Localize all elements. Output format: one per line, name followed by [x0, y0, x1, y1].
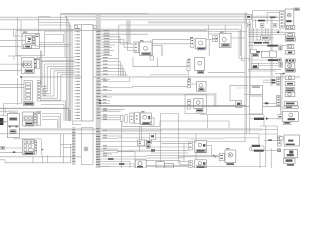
M1 wire right	[152, 44, 162, 46]
RC circle junction left	[249, 148, 252, 151]
RM box P2	[251, 63, 258, 68]
bus left x17.3	[16, 17, 18, 76]
RC box P small	[283, 121, 291, 124]
K1 top label	[23, 31, 27, 34]
RC box A 2circ	[285, 26, 295, 30]
wire mid dark y106.7	[100, 106, 281, 108]
outline inner y134 stub	[260, 133, 277, 135]
RC conn strip y136	[278, 136, 282, 146]
N pin strip	[187, 80, 190, 88]
RC box H bar	[285, 69, 295, 72]
wire y139 above fusebox	[14, 138, 42, 140]
BC wire y166.5 stub	[101, 166, 110, 168]
RM diamond mark	[277, 31, 279, 33]
RC box K bars	[285, 88, 295, 92]
wire x70.8 bottom drop	[70, 145, 72, 163]
RC box Q big	[284, 135, 300, 146]
wire x65.5 64 segment	[63, 111, 65, 121]
bus left x17.3 lower	[16, 78, 18, 105]
N2 group box	[185, 95, 206, 114]
wire y42.5	[39, 42, 63, 44]
module R label	[197, 47, 205, 50]
module U1 body	[195, 140, 207, 152]
bus left x5	[4, 108, 6, 113]
wire y159.8	[0, 159, 5, 161]
RM conn strip y45	[279, 45, 283, 50]
harness band top C	[148, 21, 247, 23]
K1 inner transistor box	[25, 35, 32, 43]
module R top label	[190, 37, 193, 38]
wire y72.7 right	[208, 72, 245, 74]
module R body	[195, 39, 206, 49]
RM resistor wire y45.6	[248, 45, 267, 47]
M3 top label	[220, 31, 224, 34]
M2-N link	[187, 71, 189, 81]
wire lower y141.6	[96, 141, 246, 143]
wire y121	[160, 120, 229, 122]
B1 top labels	[10, 111, 14, 113]
RM wire y32.2	[248, 31, 285, 33]
ECU right fan wires upper	[101, 31, 247, 33]
wire top y17.2	[0, 16, 66, 18]
box outline x160-178	[161, 113, 179, 115]
ECU left pin strip	[77, 27, 80, 30]
wire y87.4	[101, 86, 133, 88]
M2 wires left	[150, 66, 187, 68]
B1 gray label	[9, 117, 17, 120]
wire y111.2	[101, 110, 121, 112]
RC box G circ	[285, 63, 295, 69]
F1 label box	[24, 102, 35, 105]
module R wire left	[161, 45, 163, 56]
RC vertical x271.2	[270, 148, 272, 168]
bus right x245	[244, 13, 246, 142]
bus center x63.5	[63, 35, 65, 43]
vertical harness band x128	[126, 20, 130, 44]
RM wire y36.7	[248, 36, 261, 38]
module R drop	[208, 39, 210, 56]
motor top label	[226, 148, 230, 149]
drop x118.8	[118, 25, 120, 58]
wire y30.6 / K1 enclosure top	[16, 30, 207, 32]
fusebox label box	[24, 152, 34, 155]
BC bottom right box	[135, 160, 146, 168]
wires into module R	[153, 38, 191, 40]
wire lower y137.9	[118, 137, 259, 139]
N4 small box	[236, 101, 242, 108]
K1 wire left y36	[13, 35, 25, 37]
BC wire y146.5	[101, 146, 146, 148]
TR conn boxes bottom	[248, 23, 251, 27]
U2 wires left	[180, 161, 189, 163]
BR vertical x196	[195, 134, 197, 144]
bus left x21	[20, 20, 22, 34]
wire y156.8	[0, 156, 81, 158]
ECU lower connector body	[80, 128, 82, 165]
bus center x70.8	[70, 25, 72, 121]
U1 wires left	[162, 142, 189, 144]
K1 label box	[24, 45, 32, 48]
ECU circle label lower	[84, 147, 88, 151]
wire y81.5	[101, 81, 130, 83]
RM resistor wire y42.7	[248, 42, 254, 44]
wire lower y133.8	[0, 133, 259, 135]
fusebox outline	[23, 140, 35, 155]
box P3	[250, 86, 263, 95]
K1 right narrow box	[35, 35, 39, 46]
knot verticals	[183, 158, 185, 162]
module B2 outline	[23, 112, 34, 126]
N2 body	[194, 99, 203, 109]
M1 top label	[140, 40, 144, 41]
RM wire y40	[255, 39, 261, 41]
B3 label box	[10, 130, 16, 134]
corner x239	[238, 29, 240, 58]
TR verticals	[252, 11, 254, 28]
N2 label box	[196, 109, 203, 112]
harness band top B	[66, 16, 278, 18]
P3 inner	[252, 87, 260, 88]
ECU notch between connectors	[73, 120, 82, 122]
M1 body	[139, 42, 152, 55]
ECU right pin strip lower	[96, 127, 100, 130]
RC wire y150.4	[251, 149, 254, 151]
N symbol	[199, 84, 203, 88]
RC box I circ	[285, 76, 294, 80]
wire x264 drop	[263, 115, 265, 126]
R1 connector	[278, 115, 283, 119]
wire stub y103.5	[101, 103, 110, 105]
Q thin box	[125, 115, 128, 123]
wire top y29.2	[0, 28, 239, 30]
N label box	[199, 88, 204, 91]
TR pin strip	[280, 12, 285, 29]
wire y119.5 stair	[42, 119, 58, 121]
TR wire y10.6	[253, 10, 286, 12]
RM verticals left	[249, 28, 251, 86]
K3 pin strip right	[34, 58, 36, 68]
BR motor box	[225, 150, 236, 163]
wire y109.3	[101, 108, 125, 110]
N link	[191, 83, 197, 85]
dashed wire y88	[237, 87, 248, 89]
bus center x69.4	[68, 22, 70, 121]
F1 wires left	[0, 84, 24, 86]
RC vertical x260 low	[259, 150, 261, 168]
wire y31 local	[45, 30, 72, 32]
fusebox cells	[24, 141, 27, 143]
bus center x60.7	[60, 13, 62, 31]
wire y101 exit	[41, 100, 66, 102]
resistor R1 wire	[254, 118, 264, 120]
verticals x40-42 left	[39, 51, 41, 85]
RM wires y69-71	[248, 68, 281, 70]
bus center x65	[64, 31, 66, 58]
BC top box pins	[138, 140, 145, 146]
M1 symbol	[144, 46, 148, 50]
wire y34.5	[45, 34, 64, 36]
bus center x66.6	[66, 17, 68, 121]
fusebox left wire	[5, 147, 23, 149]
outline box bottom edge	[97, 166, 266, 168]
ECU right fan wires mid	[101, 57, 119, 59]
wire top y22.4	[39, 21, 70, 23]
BC wire y154	[101, 153, 112, 155]
K1 enclosure	[15, 31, 17, 56]
wire top y19.8	[0, 19, 67, 21]
corner x241.5	[241, 25, 243, 61]
RC junction circ y150	[278, 149, 281, 152]
RM wire y30	[248, 29, 281, 31]
U1 top label	[191, 138, 194, 139]
ECU left wire y57.5	[41, 57, 75, 59]
N top label	[188, 79, 191, 80]
BC wire y138.5	[101, 138, 118, 140]
junction dot band B2	[67, 19, 69, 21]
M3 symbol	[222, 38, 226, 42]
wire stub y90.5	[101, 90, 112, 92]
module R top wire	[208, 25, 210, 39]
bus left x21 mid	[21, 78, 23, 104]
wire y129.4 right	[262, 128, 277, 130]
Q right pin box	[151, 118, 154, 125]
BC verticals x139-141	[139, 126, 141, 140]
M2 pin strip	[187, 61, 190, 71]
RM box C1	[261, 36, 270, 40]
N2 pin strip	[188, 100, 191, 110]
RC box C bars	[285, 37, 295, 41]
B2 pin strip	[34, 112, 37, 125]
ECU upper connector body	[81, 25, 93, 121]
RM resistor wire y60	[248, 59, 268, 61]
RM small white box	[251, 49, 257, 53]
module U1 pin strip	[189, 142, 193, 151]
fuse stack F1	[24, 81, 33, 102]
M2 body	[195, 58, 205, 71]
knot wires	[155, 149, 189, 151]
U1 wire right	[207, 145, 212, 147]
RC tall box top	[285, 9, 294, 26]
BC wire y156.5	[101, 156, 146, 158]
wire y119.8	[101, 119, 121, 121]
bus center x72.1	[71, 29, 73, 121]
RML conn strip y77.5	[277, 78, 281, 86]
ECU top pin box right	[93, 25, 96, 28]
bus left x13.3	[12, 29, 14, 36]
wire x207.3 drop	[206, 115, 208, 129]
BC wire y161.5	[101, 161, 130, 163]
bus right x249.5	[249, 15, 251, 134]
M2 label box	[198, 71, 204, 74]
RM wires y63-65	[259, 63, 279, 65]
ECU right pin strip upper	[97, 30, 101, 33]
bottom mid boxes	[156, 162, 164, 168]
M3 connector pair	[213, 36, 218, 42]
wire y162.8	[5, 162, 71, 164]
wire top y25 right	[119, 24, 242, 26]
wire x68.7 drop	[68, 108, 70, 121]
Q box mid	[130, 113, 134, 123]
BC wire y131	[101, 130, 162, 132]
Q big box label	[142, 122, 150, 124]
BR arrow wires	[146, 154, 219, 156]
RM conn box y58	[278, 58, 281, 62]
bus left x20.7 stub	[20, 76, 22, 78]
B2 circle cells	[24, 116, 33, 121]
K3 wire left y56	[8, 55, 22, 57]
RM wire y34.5	[248, 34, 285, 36]
RC box F bars	[285, 59, 295, 62]
B2 label box	[25, 122, 32, 125]
vertical harness band x271	[270, 17, 272, 86]
harness band mid y94	[101, 93, 217, 95]
vertical x184	[183, 143, 185, 158]
BR motor pins	[219, 153, 224, 161]
K3 inner relay box	[24, 61, 32, 68]
module B1 outline	[7, 113, 19, 125]
Q big box symbol	[143, 115, 147, 119]
wire y108.3 left	[0, 107, 69, 109]
band y138 right	[188, 137, 226, 139]
Q top label	[141, 111, 145, 112]
harness band lower y129	[19, 128, 262, 130]
staircase wire labels	[43, 85, 47, 88]
module R pin strip	[191, 39, 194, 48]
BC wire y149	[101, 148, 118, 150]
RML arrow wire y82.6	[263, 82, 277, 84]
Q big box	[141, 113, 152, 125]
wire y114.6	[200, 114, 264, 116]
N4 wire	[229, 85, 231, 100]
RC box R big	[284, 149, 297, 157]
RM top boxes y51	[261, 51, 269, 57]
RC box D circ	[287, 45, 294, 49]
wire y116.5 stair	[42, 116, 59, 118]
left edge wires	[0, 115, 7, 117]
RML verticals x280-282	[280, 73, 282, 114]
vertical harness band x215	[214, 93, 217, 107]
wire nest to M1	[119, 37, 121, 44]
RM conn pair y62.5	[279, 63, 283, 68]
harness band mid y76	[21, 76, 300, 78]
wire top y25 left	[39, 24, 71, 26]
wire mid dark y105.6	[100, 105, 246, 107]
bus center x68	[67, 20, 69, 121]
BC label frame	[104, 151, 118, 153]
RC box B ellipse	[286, 33, 295, 37]
RC box L circ	[285, 92, 295, 96]
TR wire y17.5	[251, 17, 279, 19]
K3 wire left y70.3	[0, 69, 22, 71]
ECU top pin box left	[75, 25, 78, 28]
left edge dark blob	[0, 118, 3, 125]
module U2 pin strip	[189, 161, 193, 168]
K3 label box	[25, 69, 33, 72]
RC small box y136.6	[280, 137, 284, 140]
P4 arrow wire y103.3	[263, 102, 277, 104]
M2 top label	[188, 59, 191, 60]
TR resistor wire	[251, 20, 258, 22]
harness band top B2	[67, 19, 246, 20]
Q pin box left	[121, 116, 124, 122]
wire y44.7	[39, 44, 71, 46]
M1 enclosure	[132, 57, 134, 67]
BC wire y159 w/ label	[101, 158, 146, 160]
vertical x122 bottom	[121, 121, 123, 168]
Q box mid2	[135, 112, 140, 124]
F1 pin strip right	[37, 81, 40, 101]
module R symbol	[199, 41, 203, 45]
vertical harness band ECU right	[96, 15, 101, 169]
K1 wire left y46.7	[0, 46, 22, 48]
module U2 body	[195, 160, 207, 168]
harness band top A	[148, 13, 247, 15]
RM wire y73.6	[275, 73, 285, 75]
wire top y14.6	[61, 14, 148, 16]
wire y46.3	[39, 45, 69, 47]
BC wire y136	[101, 135, 122, 137]
bus left x38.5 top	[38, 17, 40, 34]
K3 wire left y64	[0, 63, 22, 65]
module R wire right	[206, 38, 213, 40]
wire y113.5 stair	[42, 113, 61, 115]
outline box right edge	[265, 126, 267, 167]
dark pin marks band	[99, 100, 101, 101]
BC wire y164 w/ label	[101, 163, 146, 165]
RC wire y140.4	[264, 139, 278, 141]
K3 right narrow box	[37, 58, 40, 69]
M1 pin strip	[134, 42, 139, 53]
Q enclosure bottom	[122, 125, 160, 127]
RC box O big	[282, 112, 298, 122]
wire stub y79.5	[101, 79, 110, 81]
ECU lower left pin strip	[72, 128, 75, 131]
RC box M bar	[284, 102, 297, 106]
TR wire y12.5	[267, 12, 280, 14]
M3 label box	[222, 44, 230, 47]
box P4	[249, 96, 262, 114]
module K3 outline	[22, 58, 35, 74]
M3 top wire	[224, 25, 226, 33]
junction knot	[151, 149, 155, 152]
K1 wire left y40.7	[0, 40, 25, 42]
fusebox left connector	[1, 146, 5, 149]
fusebox pin strip right	[35, 141, 37, 155]
RC bottom marks	[287, 164, 294, 166]
RC box S bottom	[284, 158, 296, 163]
M3 body	[219, 33, 231, 47]
BC small boxes left x146	[150, 134, 156, 140]
lower conn wires left	[60, 134, 62, 157]
K3 left pin tab	[22, 64, 23, 66]
BC wire y151.7	[118, 151, 136, 153]
RM label box dark	[252, 54, 259, 57]
bus right x246.6	[246, 13, 248, 134]
K1 pin strip	[33, 35, 35, 45]
B2 right narrow box	[37, 111, 40, 125]
U1 label box	[196, 149, 205, 152]
U2 label box	[196, 166, 205, 168]
M1 label box	[142, 53, 151, 55]
M2 symbol	[198, 61, 202, 65]
N body	[197, 81, 206, 91]
RML conn strip y95.3	[277, 95, 280, 106]
vertical harness band ECU lower-left	[72, 127, 76, 165]
ECU left wire y60.5	[41, 60, 75, 62]
harness band bottom y150	[96, 150, 153, 152]
RC box E pill	[285, 51, 295, 55]
BC vertical x139.5	[139, 146, 141, 153]
